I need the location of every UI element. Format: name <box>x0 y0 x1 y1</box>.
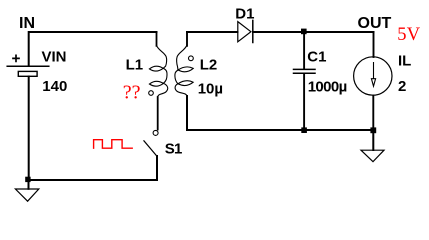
switch S1 blade <box>144 141 157 156</box>
current source IL arrow <box>371 63 375 87</box>
svg-text:L1: L1 <box>126 56 144 73</box>
svg-text:2: 2 <box>398 78 406 95</box>
wire IL bottom to ground junction <box>372 96 374 131</box>
wire OUT corner down to IL top <box>373 32 375 57</box>
wire C1 bottom plate down to bottom wire <box>303 74 305 130</box>
ground secondary triangle <box>361 150 384 162</box>
battery VIN plus sign <box>13 55 19 61</box>
wire D1 cathode to OUT corner <box>253 31 374 33</box>
control square wave red <box>94 140 133 149</box>
svg-text:OUT: OUT <box>358 15 392 32</box>
inductor L2 exit curl <box>175 84 187 97</box>
inductor L1 loop 1 <box>149 66 163 71</box>
ground primary triangle <box>15 189 38 201</box>
current source IL circle <box>354 57 392 95</box>
svg-text:IN: IN <box>19 15 35 32</box>
ground secondary stub <box>372 133 374 150</box>
wire battery plus up and right to L1 top (net IN) <box>29 32 157 66</box>
svg-text:VIN: VIN <box>42 48 67 65</box>
wire L2 top to D1 anode <box>187 31 238 33</box>
inductor L2 loop 2 <box>178 81 193 86</box>
junction at C1 bottom <box>301 127 307 133</box>
switch S1 terminal circle <box>153 130 158 135</box>
junction at battery minus / ground <box>25 177 30 182</box>
inductor L2 secondary winding entry <box>177 46 187 70</box>
wire L2 top stub <box>186 32 188 46</box>
inductor L2 loop 1 <box>178 67 193 72</box>
svg-text:??: ?? <box>123 82 141 104</box>
diode D1 triangle <box>238 22 251 42</box>
phase dot L1 <box>149 91 154 96</box>
inductor L1 exit curl <box>158 83 168 97</box>
inductor L2 loop connector <box>175 70 178 84</box>
battery VIN bottom plate <box>18 71 37 76</box>
junction at C1 top <box>301 29 307 35</box>
svg-text:L2: L2 <box>200 57 218 74</box>
battery VIN top plate <box>7 65 49 67</box>
ground primary stub <box>28 182 30 189</box>
svg-text:D1: D1 <box>235 5 254 22</box>
svg-text:140: 140 <box>42 78 67 95</box>
inductor L1 loop connector <box>163 68 167 83</box>
wire bottom-left: ground junction to switch bottom <box>29 179 158 181</box>
junction at IL bottom <box>370 127 376 133</box>
phase dot L2 <box>189 56 194 61</box>
svg-text:10µ: 10µ <box>198 81 223 98</box>
wire battery minus down to ground junction <box>28 77 30 181</box>
svg-text:C1: C1 <box>307 48 326 65</box>
diode D1 cathode bar <box>252 20 254 42</box>
wire switch bottom down <box>156 156 158 180</box>
svg-text:5V: 5V <box>397 25 420 45</box>
wire L1 top stub <box>156 32 158 46</box>
wire L1 bottom to switch <box>157 97 159 130</box>
wire junction to C1 top plate <box>303 32 305 69</box>
inductor L1 primary winding entry <box>157 46 167 69</box>
capacitor C1 plates <box>294 69 316 73</box>
wire L2 bottom down and right to ground junction <box>187 96 373 130</box>
svg-text:IL: IL <box>398 52 411 69</box>
svg-text:1000µ: 1000µ <box>308 78 347 95</box>
inductor L1 loop 2 <box>149 81 163 86</box>
svg-text:S1: S1 <box>165 140 182 157</box>
